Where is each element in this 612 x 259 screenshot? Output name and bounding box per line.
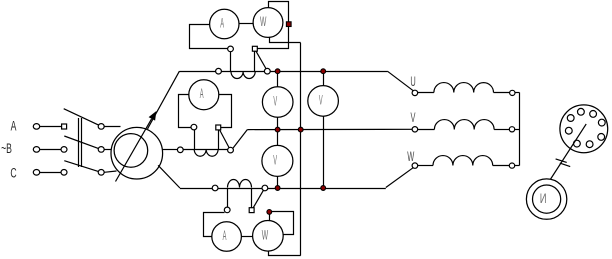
wire line3 right — [268, 188, 386, 190]
wire W2 to star bus — [515, 165, 520, 167]
switch S1 blade C — [64, 161, 101, 173]
wire PA3 left loop — [204, 213, 225, 237]
wire line1 left — [179, 71, 215, 73]
wire PW1 top loop — [269, 2, 289, 22]
svg-text:~B: ~B — [1, 141, 12, 157]
svg-text:A: A — [220, 17, 224, 31]
terminal B1 — [33, 147, 39, 153]
terminal A2 (square) — [62, 124, 67, 129]
terminal line1 b — [264, 68, 270, 74]
wire PA1-PW1 — [239, 23, 253, 25]
G1 rotor slot 4 — [598, 119, 605, 126]
terminal PA2 lower (square) — [216, 125, 221, 130]
wire PV1 bottom stub — [277, 117, 279, 129]
switch S1 link bar 2 — [81, 118, 83, 167]
terminal W — [412, 163, 418, 168]
variac arrow shaft — [116, 119, 152, 182]
junction dot near PW1 (square) — [286, 22, 291, 27]
wire line2 right — [247, 128, 412, 130]
wire B row input — [40, 149, 62, 151]
terminal U — [412, 90, 418, 95]
junction dot line3-PV3 — [275, 186, 280, 191]
wire variac to line3 diagonal — [158, 165, 180, 188]
G1 rotor slot 3 — [590, 111, 597, 118]
junction dot line2-PV1 — [275, 127, 280, 132]
wire variac to line1 diagonal — [148, 71, 180, 129]
svg-text:И: И — [540, 192, 547, 207]
junction dot line3-PV2 — [321, 186, 326, 191]
terminal line3 b — [262, 185, 268, 191]
junction dot line1-PV1 — [275, 69, 280, 74]
svg-text:A: A — [11, 119, 17, 135]
terminal B2 — [61, 147, 67, 153]
wire PW3 top stub — [269, 214, 271, 221]
terminal PA1 lower (circle) — [228, 46, 234, 52]
wire square terminal diagonal — [256, 51, 266, 69]
wire junction to square terminal — [257, 27, 288, 49]
switch hinge terminal B — [98, 147, 104, 153]
junction dot near PW3 — [267, 210, 272, 215]
G1 rotor slot 2 — [578, 108, 585, 115]
switch S1 blade B — [64, 136, 101, 149]
wire lower circle terminal stub — [227, 188, 229, 207]
svg-text:A: A — [200, 88, 204, 102]
terminal PW3 upper (square) — [249, 208, 254, 213]
terminal U2 — [510, 90, 515, 95]
wire line1 to U diagonal — [387, 71, 413, 91]
terminal PA3 upper (circle) — [224, 207, 230, 213]
junction dot line1-PV2 — [321, 69, 326, 74]
switch S1 blade A — [64, 109, 101, 127]
inductor LU — [434, 83, 494, 93]
switch hinge terminal A — [98, 124, 104, 130]
wire switch to variac B — [104, 149, 111, 151]
wire line1 mid — [221, 71, 264, 73]
terminal line2 b — [228, 147, 234, 153]
G1 rotor slot 1 — [567, 115, 574, 122]
wire W to coil — [418, 165, 433, 167]
wire PV2 bottom vertical — [323, 116, 325, 188]
synchronous machine G1 body — [560, 105, 608, 153]
wire PW3 right loop — [272, 212, 294, 235]
wire variac to line2 — [163, 149, 178, 151]
svg-text:W: W — [260, 15, 267, 30]
terminal line1 a — [216, 68, 222, 74]
wire U2 to star bus — [515, 92, 520, 94]
loop humps above line3 — [228, 180, 252, 188]
terminal A1 — [33, 124, 39, 130]
terminal C1 — [33, 170, 39, 176]
wire line1 right — [270, 71, 387, 73]
wire PA2 square diagonal — [220, 130, 230, 148]
G1 rotor slot 6 — [586, 141, 593, 148]
variac T1 outer circle — [111, 127, 163, 179]
terminal line2 variac — [177, 147, 183, 153]
wire PA2 circle terminal stub — [194, 130, 196, 150]
wire PA2 left loop — [179, 95, 192, 128]
voltmeter PV1 — [262, 87, 293, 118]
inductor LV — [434, 120, 494, 130]
terminal PW1 lower (square) — [252, 46, 257, 51]
wire V2 to star bus — [515, 129, 520, 131]
prime mover M1 outer — [526, 179, 566, 219]
terminal PA2 lower (circle) — [191, 124, 197, 130]
loop humps below line1 — [231, 72, 255, 79]
terminal V2 — [509, 127, 514, 132]
svg-text:C: C — [10, 166, 16, 182]
wire line3 mid — [218, 188, 262, 190]
wire terminal to line1 left stub — [230, 52, 232, 71]
svg-text:W: W — [262, 228, 269, 243]
loop humps below line2 — [194, 150, 218, 157]
wire switch to variac A — [104, 126, 120, 128]
wire coil V out — [494, 129, 509, 131]
wire PA3-PW3 — [241, 236, 252, 238]
variac arrow head — [149, 111, 157, 121]
coupling mark 1 — [556, 159, 567, 163]
wire line3 left — [180, 188, 212, 190]
wire coil W out — [493, 165, 510, 167]
ammeter PA2 — [189, 80, 219, 110]
wire terminal to line1 right stub — [254, 51, 256, 71]
wire PW1 bottom stub — [270, 37, 301, 42]
svg-text:W: W — [407, 150, 414, 165]
wire PV2 top stub — [323, 71, 325, 85]
wire V to coil — [418, 129, 435, 131]
wattmeter PW1 — [253, 8, 283, 38]
wire PA2 square terminal stub — [218, 130, 220, 150]
switch S1 link bar — [78, 118, 80, 167]
wire PA1 left loop — [190, 25, 228, 49]
wire coil U out — [494, 92, 510, 94]
svg-text:U: U — [410, 75, 415, 90]
wire C row input — [40, 172, 62, 174]
ammeter PA3 — [212, 222, 242, 252]
wire PV3 top stub — [277, 130, 279, 146]
wire star point bus — [519, 93, 521, 166]
wire PW3 bottom stub — [269, 251, 301, 255]
variac T1 inner circle — [114, 134, 148, 168]
terminal W2 — [509, 163, 514, 168]
inductor LW — [433, 156, 493, 166]
terminal line3 a — [212, 185, 218, 191]
wire PV1 top stub — [277, 71, 279, 87]
coupling mark 2 — [560, 163, 570, 167]
G1 rotor slot 5 — [598, 134, 605, 141]
junction dot line2-bus — [298, 127, 303, 132]
ammeter PA1 — [210, 9, 239, 38]
voltmeter PV2 — [308, 86, 339, 117]
terminal V — [412, 127, 418, 132]
svg-text:V: V — [319, 94, 323, 108]
wire vertical bus B — [300, 43, 302, 256]
wire line2 mid — [183, 149, 227, 151]
prime mover M1 inner — [533, 185, 561, 213]
svg-text:V: V — [411, 111, 416, 126]
svg-text:A: A — [223, 230, 227, 244]
wire A row input — [40, 126, 62, 128]
wire PA2 right loop — [219, 95, 232, 128]
G1 rotor slot 8 — [565, 127, 572, 134]
wire PV3 bottom stub — [277, 176, 279, 188]
terminal C2 — [61, 170, 67, 176]
voltmeter PV3 — [262, 145, 293, 176]
wire lower square terminal stub — [251, 188, 253, 208]
switch hinge terminal C — [98, 170, 104, 176]
svg-text:V: V — [273, 154, 277, 168]
wire U to coil — [418, 92, 434, 94]
wattmeter PW3 — [253, 221, 284, 252]
wire lower square diagonal — [253, 190, 263, 207]
G1 rotor slot 7 — [574, 140, 581, 147]
wire line3 to W diagonal — [386, 168, 413, 188]
shaft line — [545, 124, 586, 188]
wire switch to variac C — [104, 171, 116, 172]
svg-text:V: V — [273, 95, 277, 109]
wire line2 rise diagonal — [233, 130, 248, 149]
